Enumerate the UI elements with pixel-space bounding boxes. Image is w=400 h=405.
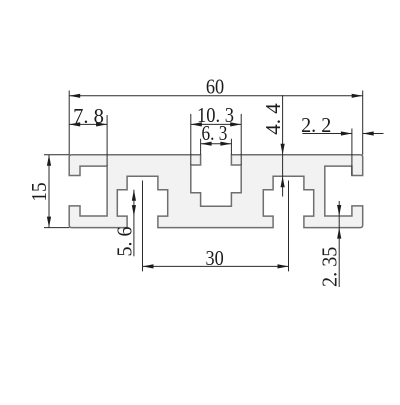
svg-text:4. 4: 4. 4 [261,103,285,135]
arrow 6.3 right [220,142,231,146]
arrow 2.2 right [341,131,352,135]
dimension 2.35 line [338,201,340,287]
svg-text:6. 3: 6. 3 [201,123,227,146]
arrow 30 right [278,264,289,268]
dimension 10.3 extension line left [190,114,192,165]
dimension 30 line [143,265,289,267]
dimension 4.4 line [282,95,284,196]
dimension 30 extension line right [288,181,290,272]
arrow 4.4 up [281,176,285,187]
arrow 7.8 left [69,122,80,126]
dimension 7.8 line [69,123,107,125]
dimension 30 extension line left [142,181,144,272]
arrow 2.35 down [337,205,341,216]
svg-text:5. 6: 5. 6 [114,227,137,257]
arrow 60 left [69,94,80,98]
arrow 5.6 down [132,205,136,216]
arrow 2.35 up [337,228,341,239]
arrow 30 left [143,264,154,268]
svg-text:15: 15 [28,182,51,201]
dimension 6.3 extension line right [230,139,232,155]
svg-text:2. 35: 2. 35 [319,247,341,287]
dimension 15 extension line bottom [44,227,69,229]
svg-text:60: 60 [206,75,224,98]
dimension 2.2 extension line [351,129,353,176]
arrow 5.6 up [132,190,136,201]
arrow 4.4 down [281,144,285,155]
arrow 10.3 right [230,122,241,126]
dimension 10.3 extension line right [240,114,242,165]
dimension 5.6 line [133,190,135,257]
dimension 15 extension line top [44,154,69,156]
dimension 7.8 extension line right [106,115,108,166]
arrow 60 right [352,94,363,98]
dimension 10.3 line [191,123,241,125]
arrow 6.3 left [201,142,212,146]
svg-text:30: 30 [205,247,223,270]
arrow 15 up [47,155,51,166]
profile cross-section outline (60x15 aluminium extrusion) [69,155,363,228]
dimension 60 line [69,95,363,97]
svg-text:2. 2: 2. 2 [301,115,331,137]
arrow 10.3 left [191,122,202,126]
dimension 2.2 leader line right [363,133,384,135]
dimension 60 extension line left [68,91,70,155]
dimension 2.2 leader line left [302,133,352,135]
dimension 6.3 extension line left [200,139,202,155]
svg-text:7. 8: 7. 8 [73,105,104,128]
dimension 60 extension line right [362,91,364,155]
dimension 6.3 line [201,143,232,145]
dimension 15 line [48,155,50,228]
arrow 15 down [47,217,51,228]
arrow 2.2 left [363,131,374,135]
arrow 7.8 right [96,122,107,126]
